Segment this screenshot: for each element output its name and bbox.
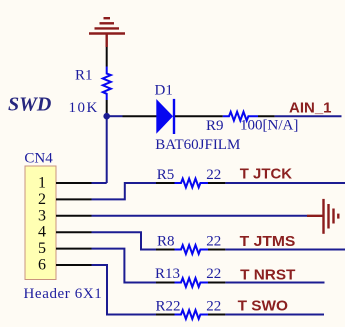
svg-text:AIN_1: AIN_1 xyxy=(289,99,332,116)
wire: R8 right pin (black) xyxy=(208,249,225,251)
svg-text:BAT60JFILM: BAT60JFILM xyxy=(155,137,240,153)
resistor R13 xyxy=(175,278,209,287)
svg-text:T NRST: T NRST xyxy=(240,266,295,283)
svg-text:22: 22 xyxy=(206,299,221,315)
wire: R5 right pin (black) xyxy=(208,182,225,184)
wire: GND1 stem to R1 pin (black pin segment) xyxy=(106,47,108,67)
svg-text:R1: R1 xyxy=(75,67,93,83)
pin 6 stub (black) xyxy=(56,264,92,266)
connector CN4 (Header 6X1 body) xyxy=(25,166,56,280)
svg-text:R8: R8 xyxy=(157,234,175,250)
svg-text:2: 2 xyxy=(38,191,46,208)
resistor R9 (horizontal zigzag) xyxy=(223,112,258,121)
pin 3 stub (black) xyxy=(56,215,92,217)
wire: R8 left pin (black) xyxy=(156,249,175,251)
resistor R22 xyxy=(175,310,209,319)
wire: pin 5 to R13 row (navy step down) xyxy=(92,249,159,283)
svg-text:CN4: CN4 xyxy=(24,150,53,166)
svg-text:10K: 10K xyxy=(69,100,99,116)
pin 2 stub (black) xyxy=(56,198,92,200)
svg-text:22: 22 xyxy=(206,234,221,250)
wire: net T_JTCK (navy) xyxy=(225,182,345,184)
wire: R22 left pin (black) xyxy=(156,314,175,316)
svg-text:D1: D1 xyxy=(155,83,173,99)
wire: R5 left pin (black) xyxy=(156,182,175,184)
svg-text:6: 6 xyxy=(38,257,46,274)
wire: R9 right pin (black) xyxy=(258,115,275,117)
wire: junction down to pin 1 (navy) xyxy=(106,116,108,183)
wire: D1 cathode pin to R9 (black) xyxy=(175,115,223,117)
wire: pin 3 to GND2 (navy) xyxy=(92,215,308,217)
wire: D1 anode pin (black) xyxy=(123,115,158,117)
wire: R13 right pin (black) xyxy=(208,282,225,284)
wire: net T_NRST (navy) xyxy=(225,282,324,284)
svg-text:1: 1 xyxy=(38,175,46,192)
svg-text:R9: R9 xyxy=(206,118,224,134)
svg-text:100[N/A]: 100[N/A] xyxy=(240,118,298,134)
svg-text:22: 22 xyxy=(206,167,221,183)
wire: net T_JTMS (navy) xyxy=(225,249,345,251)
svg-text:22: 22 xyxy=(206,266,221,282)
svg-text:Header 6X1: Header 6X1 xyxy=(24,286,103,302)
wire: R13 left pin (black) xyxy=(156,282,175,284)
pin 4 stub (black) xyxy=(56,231,92,233)
svg-text:4: 4 xyxy=(38,224,46,241)
ground GND2 (earth symbol, right, rotated) xyxy=(307,199,338,234)
ground GND1 (earth symbol, top) xyxy=(89,18,125,47)
resistor R8 xyxy=(175,245,209,254)
svg-text:T JTCK: T JTCK xyxy=(240,166,292,183)
wire: pin 1 to junction riser (navy) xyxy=(92,182,107,184)
diode D1 xyxy=(156,99,174,134)
svg-text:SWD: SWD xyxy=(8,94,51,116)
svg-text:T JTMS: T JTMS xyxy=(240,233,296,250)
wire: pin 4 to R8 row (navy step down) xyxy=(92,232,159,249)
svg-text:R22: R22 xyxy=(156,299,181,315)
wire: junction right to D1 anode (navy) xyxy=(107,115,123,117)
wire: R22 right pin (black) xyxy=(208,314,225,316)
node: junction dot xyxy=(103,113,110,120)
svg-text:T SWO: T SWO xyxy=(238,297,289,314)
wire: R1 bottom pin to junction (black) xyxy=(106,100,108,117)
wire: pin 6 to R22 row (navy step down) xyxy=(92,265,159,315)
svg-text:5: 5 xyxy=(38,240,46,257)
wire: net AIN_1 (navy) xyxy=(275,115,342,117)
svg-text:R5: R5 xyxy=(157,167,175,183)
resistor R1 (vertical zigzag) xyxy=(103,67,111,101)
svg-text:3: 3 xyxy=(38,207,46,224)
svg-text:R13: R13 xyxy=(155,266,180,282)
resistor R5 xyxy=(175,179,209,188)
pin 5 stub (black) xyxy=(56,248,92,250)
pin 1 stub (black) xyxy=(56,182,92,184)
wire: net T_SWO (navy) xyxy=(225,314,324,316)
wire: pin 2 to R5 row (navy step up) xyxy=(92,183,159,199)
